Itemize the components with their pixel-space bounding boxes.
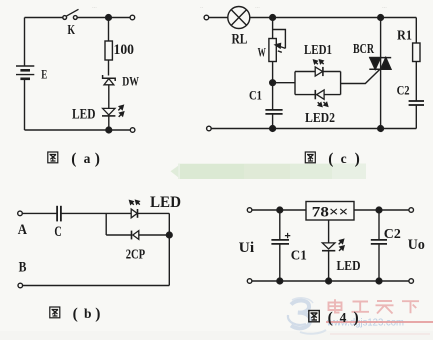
svg-text:): ) (355, 150, 360, 167)
terminal: bottom left open circle (247, 279, 252, 284)
watermark green highlight band (171, 164, 367, 180)
faint top edge noise (92, 3, 387, 10)
wire: left vertical (battery top lead) (24, 18, 26, 67)
svg-text:LED2: LED2 (305, 111, 335, 126)
wire: resistor top lead (108, 18, 110, 42)
svg-text:C2: C2 (397, 83, 410, 98)
node: C1 top junction (277, 207, 283, 213)
wire: left vertical (battery bottom lead) (24, 79, 26, 130)
svg-text:(: ( (71, 150, 76, 167)
node: C1 bottom junction (270, 126, 276, 132)
resistor R1 (413, 43, 420, 62)
wire: regulator to right terminal (354, 209, 409, 211)
battery E (16, 66, 34, 79)
svg-text:...: ... (92, 3, 97, 10)
node: top junction at W (270, 15, 276, 21)
caption tu (b) (50, 305, 101, 322)
caption tu (c) (305, 150, 359, 167)
wire: top horizontal lamp to right corner (250, 17, 416, 19)
watermark red strike line (326, 321, 433, 323)
capacitor C1 (265, 110, 282, 114)
wire: lower branch left (106, 234, 131, 236)
svg-text:..: .. (200, 3, 204, 10)
svg-text:E: E (41, 68, 47, 82)
wire: LED bottom lead (328, 251, 330, 281)
svg-text:(: ( (328, 309, 333, 326)
wire: C1 bottom lead (272, 114, 274, 129)
wire: terminal to regulator (252, 209, 306, 211)
wire: node to LED block (273, 82, 295, 84)
svg-text:W: W (258, 45, 266, 60)
capacitor C2 (d) (371, 240, 387, 244)
terminal A open circle (18, 211, 23, 216)
svg-text:LED: LED (72, 107, 96, 123)
wire: LED to bottom node (108, 116, 110, 130)
wire: bottom horizontal (211, 128, 416, 130)
node: right junction (166, 232, 172, 238)
svg-text:LED: LED (150, 194, 181, 211)
terminal: bottom right open circle (130, 128, 135, 133)
svg-text:(: ( (328, 150, 333, 167)
regulator 78xx box (306, 202, 354, 221)
wire: top horizontal to switch (25, 17, 64, 19)
lamp RL (228, 7, 250, 29)
wire: R1 top lead (right corner down) (415, 18, 417, 44)
wire: LED top lead (328, 220, 330, 243)
node: top junction (106, 15, 112, 21)
LED1 LED2 parallel block frame (295, 72, 341, 95)
svg-text:c: c (341, 151, 347, 166)
svg-text:A: A (18, 222, 27, 238)
svg-text:100: 100 (114, 42, 135, 58)
terminal: top left Ui open circle (247, 208, 252, 213)
terminal: top right Uo open circle (409, 208, 414, 213)
node: bottom junction (106, 127, 112, 133)
capacitor C (57, 206, 61, 222)
wire: gate from block to BCR (341, 69, 380, 83)
wire: right vertical (168, 213, 170, 285)
svg-text:2CP: 2CP (126, 247, 146, 262)
wire: W bottom lead to node (272, 62, 274, 83)
svg-text:BCR: BCR (353, 42, 375, 57)
terminal: top right open circle (130, 15, 135, 20)
svg-text:b: b (84, 306, 92, 321)
node: top junction at BCR (378, 15, 384, 21)
triac BCR (369, 18, 391, 129)
node: C2 top junction (376, 207, 382, 213)
wire: C1 bottom lead (279, 244, 281, 281)
wire: C1 top lead (272, 83, 274, 110)
svg-text:C: C (54, 224, 61, 240)
wire: switch to node (77, 17, 108, 19)
wire: LED to right corner (138, 212, 170, 214)
wire: bottom horizontal (25, 129, 131, 131)
LED2 (315, 90, 327, 107)
LED1 (314, 60, 324, 76)
svg-text:78××: 78×× (312, 204, 349, 220)
svg-text:RL: RL (232, 32, 248, 48)
zener diode DW (103, 75, 116, 85)
wire: R1 to C2 (415, 62, 417, 101)
svg-text:B: B (19, 260, 27, 276)
watermark text dian gong tian xia (329, 299, 420, 313)
wire: lower branch right (139, 234, 169, 236)
svg-text:): ) (354, 309, 359, 326)
svg-text:C2: C2 (384, 227, 401, 242)
svg-text:LED1: LED1 (304, 43, 332, 58)
capacitor C1 (d) (271, 233, 290, 244)
svg-text:LED: LED (337, 259, 361, 274)
svg-text:Uo: Uo (408, 237, 425, 253)
node: C1 bottom junction (277, 278, 283, 284)
svg-text:): ) (95, 150, 100, 167)
node: C2 bottom junction (376, 278, 382, 284)
wire: branch split vertical (105, 213, 107, 235)
wire: C2 bottom lead (378, 244, 380, 281)
wire: capacitor to LED branch (61, 212, 131, 214)
capacitor C2 (409, 101, 424, 105)
svg-text:a: a (84, 151, 91, 166)
svg-text:): ) (95, 305, 100, 322)
svg-text:(: ( (73, 305, 78, 322)
caption tu (4) (309, 309, 359, 326)
svg-text:Ui: Ui (239, 240, 255, 256)
switch K (63, 9, 79, 19)
svg-text:DW: DW (122, 74, 139, 89)
wire: zener to LED (108, 85, 110, 108)
svg-text:C1: C1 (291, 249, 307, 264)
resistor R 100 (105, 41, 112, 60)
wire: node to right terminal (109, 17, 131, 19)
LED (d) (322, 239, 344, 251)
wire: resistor to zener (108, 60, 110, 76)
wire: A to capacitor (22, 212, 56, 214)
wire: C2 top lead (378, 210, 380, 239)
svg-text:K: K (68, 23, 76, 38)
diode 2CP (132, 231, 139, 240)
terminal: bottom left open circle (207, 126, 212, 131)
node: BCR bottom junction (378, 126, 384, 132)
svg-text:R1: R1 (397, 29, 412, 44)
terminal: top left open circle (204, 15, 209, 20)
wire: bottom horizontal (23, 285, 170, 287)
LED (b) (130, 200, 140, 217)
caption tu (a) (48, 150, 100, 167)
wire: terminal to lamp (209, 17, 228, 19)
svg-text:4: 4 (340, 310, 347, 325)
wire: bottom horizontal (252, 280, 409, 282)
bottom edge band (0, 331, 433, 340)
svg-text:C1: C1 (249, 88, 262, 103)
terminal B open circle (18, 283, 23, 288)
potentiometer W (269, 30, 286, 62)
wire: C2 bottom lead (415, 105, 417, 128)
watermark blue swirl logo (288, 298, 313, 328)
node: LED bottom junction (326, 278, 332, 284)
wire: W top lead (272, 18, 274, 39)
wire: C1 top lead (279, 210, 281, 239)
node: C1 junction (270, 80, 276, 86)
svg-text:...: ... (255, 3, 260, 10)
svg-text:...: ... (382, 3, 387, 10)
terminal: bottom right open circle (409, 279, 414, 284)
LED (a) (102, 105, 124, 117)
